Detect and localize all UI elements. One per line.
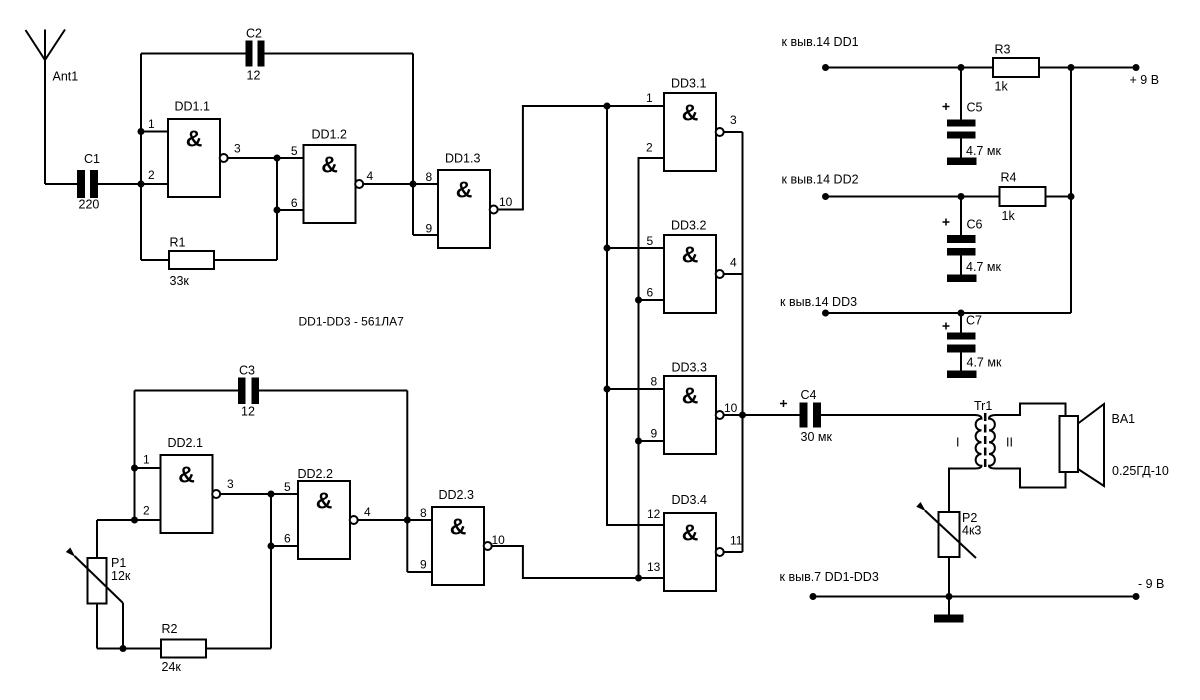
wire DD2.3 output to DD3 bus B bbox=[491, 546, 664, 578]
svg-text:10: 10 bbox=[492, 533, 506, 547]
ground bar C6 bbox=[947, 275, 977, 283]
svg-text:4к3: 4к3 bbox=[962, 524, 981, 538]
wire antenna to C1 bbox=[45, 183, 77, 185]
gate DD2.2 bbox=[298, 481, 350, 559]
svg-text:5: 5 bbox=[647, 234, 654, 248]
wire C2 to DD1.3 input net bbox=[265, 53, 414, 55]
wire power row 2 bbox=[826, 196, 1000, 198]
wire bus B vertical bbox=[639, 158, 665, 578]
svg-text:13: 13 bbox=[647, 560, 661, 574]
svg-text:к выв.14 DD2: к выв.14 DD2 bbox=[782, 173, 859, 187]
wire left vertical DD2 input net bbox=[134, 391, 136, 521]
wire pin 2 DD2.1 bbox=[97, 519, 161, 521]
wire C3 to DD2.3 input net bbox=[259, 390, 407, 392]
resistor R2 bbox=[161, 640, 206, 658]
svg-text:2: 2 bbox=[646, 141, 653, 155]
wire pin 6 DD1.2 bbox=[277, 209, 304, 211]
svg-text:к выв.14 DD3: к выв.14 DD3 bbox=[780, 295, 857, 309]
svg-text:II: II bbox=[1006, 436, 1013, 450]
svg-text:1: 1 bbox=[148, 117, 155, 131]
wire DD3.1 output bbox=[723, 131, 742, 133]
gate DD2.3 bbox=[432, 507, 484, 585]
wire C1 to node bbox=[98, 183, 168, 185]
wire pin 8 DD3.3 bbox=[607, 388, 664, 390]
svg-text:&: & bbox=[682, 100, 699, 126]
svg-text:2: 2 bbox=[143, 504, 150, 518]
svg-text:C2: C2 bbox=[246, 27, 262, 41]
svg-text:R1: R1 bbox=[170, 236, 186, 250]
svg-text:C1: C1 bbox=[84, 152, 100, 166]
svg-text:BA1: BA1 bbox=[1112, 412, 1136, 426]
wire pin 5 DD2.2 bbox=[271, 493, 298, 495]
plus sign C5 bbox=[943, 103, 950, 110]
svg-text:3: 3 bbox=[234, 142, 241, 156]
gate DD3.3 bbox=[664, 376, 716, 454]
wire power row 1 bbox=[826, 67, 994, 69]
svg-text:6: 6 bbox=[284, 532, 291, 546]
capacitor C4 bbox=[800, 403, 822, 428]
wire top to C3 bbox=[135, 390, 239, 392]
wire secondary bottom to BA1 bbox=[996, 469, 1066, 488]
wire DD1.3 output to DD3 bus A bbox=[497, 106, 664, 210]
gate DD3.2 bbox=[664, 235, 716, 313]
plus sign C7 bbox=[943, 323, 950, 330]
capacitor C6 bbox=[960, 197, 962, 236]
transformer Tr1 primary winding bbox=[949, 415, 982, 512]
svg-text:30 мк: 30 мк bbox=[801, 430, 833, 444]
ground bbox=[948, 597, 950, 615]
svg-text:DD3.1: DD3.1 bbox=[671, 77, 706, 91]
wire pin 9 DD2.3 bbox=[407, 571, 432, 573]
svg-text:9: 9 bbox=[426, 222, 433, 236]
wire pin 9 DD1.3 bbox=[413, 234, 438, 236]
svg-text:C3: C3 bbox=[239, 364, 255, 378]
svg-text:Ant1: Ant1 bbox=[53, 70, 79, 84]
svg-text:DD1.3: DD1.3 bbox=[445, 152, 480, 166]
wire power row 3 bbox=[826, 312, 1072, 314]
svg-text:4: 4 bbox=[730, 256, 737, 270]
resistor R3 bbox=[993, 58, 1039, 77]
svg-text:8: 8 bbox=[651, 375, 658, 389]
svg-text:4: 4 bbox=[364, 505, 371, 519]
svg-text:R4: R4 bbox=[1001, 171, 1017, 185]
wire R1 to feedback node bbox=[214, 259, 277, 261]
svg-text:P1: P1 bbox=[111, 556, 126, 570]
svg-text:4.7 мк: 4.7 мк bbox=[966, 144, 1001, 158]
svg-text:6: 6 bbox=[291, 196, 298, 210]
svg-text:9: 9 bbox=[420, 558, 427, 572]
wire vertical DD2.2 input net bbox=[270, 494, 272, 649]
svg-text:3: 3 bbox=[730, 113, 737, 127]
plus sign C6 bbox=[943, 219, 950, 226]
svg-text:33к: 33к bbox=[170, 274, 190, 288]
svg-text:1k: 1k bbox=[1002, 209, 1016, 223]
wire pin 6 DD3.2 bbox=[639, 299, 665, 301]
wire C4 to Tr1 bbox=[821, 414, 975, 416]
speaker BA1 bbox=[1060, 416, 1079, 472]
ground bar C7 bbox=[947, 371, 977, 379]
svg-text:10: 10 bbox=[499, 195, 513, 209]
transformer Tr1 secondary winding bbox=[989, 415, 996, 469]
wire pin 9 DD3.3 bbox=[639, 440, 665, 442]
wire down to P1 bbox=[96, 520, 98, 558]
wire pin 1 DD2.1 bbox=[135, 467, 161, 469]
wire +9V vertical bus bbox=[1070, 68, 1072, 314]
svg-text:6: 6 bbox=[647, 286, 654, 300]
wire vertical into DD1.3 pins bbox=[412, 54, 414, 236]
svg-text:DD2.2: DD2.2 bbox=[298, 467, 333, 481]
svg-text:8: 8 bbox=[426, 170, 433, 184]
svg-text:12: 12 bbox=[647, 507, 661, 521]
svg-text:R2: R2 bbox=[162, 622, 178, 636]
svg-text:&: & bbox=[682, 242, 699, 268]
wire pin 6 DD2.2 bbox=[271, 545, 298, 547]
svg-text:к выв.14 DD1: к выв.14 DD1 bbox=[782, 35, 859, 49]
potentiometer P2 bbox=[939, 512, 960, 557]
svg-text:9: 9 bbox=[651, 427, 658, 441]
svg-text:C6: C6 bbox=[967, 218, 983, 232]
capacitor C2 bbox=[246, 41, 265, 67]
svg-text:&: & bbox=[178, 462, 195, 488]
gate DD1.1 bbox=[168, 119, 220, 197]
svg-text:2: 2 bbox=[148, 168, 155, 182]
svg-text:1: 1 bbox=[646, 91, 653, 105]
wire vertical DD1.2 input net bbox=[276, 158, 278, 260]
wire pin 8 DD1.3 bbox=[413, 183, 438, 185]
svg-text:DD1.1: DD1.1 bbox=[175, 100, 210, 114]
wire DD3.3 output bbox=[723, 414, 742, 416]
svg-text:DD1-DD3 - 561ЛА7: DD1-DD3 - 561ЛА7 bbox=[299, 315, 405, 329]
potentiometer P1 bbox=[88, 558, 107, 604]
wire left vertical DD1 input net bbox=[140, 54, 142, 261]
svg-text:DD1.2: DD1.2 bbox=[312, 128, 347, 142]
wire DD1.2 output bbox=[363, 183, 413, 185]
svg-text:11: 11 bbox=[730, 534, 743, 548]
svg-text:DD2.3: DD2.3 bbox=[439, 488, 474, 502]
svg-text:DD3.3: DD3.3 bbox=[672, 361, 707, 375]
svg-text:220: 220 bbox=[79, 198, 100, 212]
wire bus to C4 bbox=[743, 414, 800, 416]
capacitor C5 bbox=[960, 68, 962, 120]
svg-text:Tr1: Tr1 bbox=[974, 399, 992, 413]
svg-text:&: & bbox=[186, 126, 203, 152]
svg-text:&: & bbox=[682, 383, 699, 409]
wire DD3.2 output bbox=[723, 273, 742, 275]
wire negative rail bbox=[813, 596, 1136, 598]
gate DD3.1 bbox=[664, 93, 716, 171]
wire P2 to negative rail bbox=[948, 557, 950, 597]
svg-text:&: & bbox=[456, 177, 473, 203]
wire pin 8 DD2.3 bbox=[407, 519, 432, 521]
svg-text:5: 5 bbox=[284, 480, 291, 494]
svg-text:C5: C5 bbox=[967, 101, 983, 115]
svg-text:DD3.4: DD3.4 bbox=[672, 493, 707, 507]
transformer Tr1 core bbox=[984, 413, 987, 470]
svg-text:12: 12 bbox=[247, 69, 261, 83]
wire pin 5 DD3.2 bbox=[607, 247, 664, 249]
wire P1 bottom bbox=[96, 604, 98, 649]
svg-text:&: & bbox=[316, 488, 333, 514]
gate DD2.1 bbox=[161, 455, 213, 533]
svg-text:&: & bbox=[682, 520, 699, 546]
wire R4 to bus bbox=[1046, 196, 1072, 198]
wire output bus vertical bbox=[742, 132, 744, 552]
svg-text:12к: 12к bbox=[111, 569, 131, 583]
svg-text:4: 4 bbox=[367, 169, 374, 183]
wire pin 5 DD1.2 bbox=[277, 157, 304, 159]
capacitor C1 bbox=[77, 170, 98, 198]
svg-text:DD2.1: DD2.1 bbox=[168, 436, 203, 450]
svg-text:C4: C4 bbox=[801, 388, 817, 402]
capacitor C3 bbox=[238, 378, 259, 405]
wire top to C2 bbox=[141, 53, 246, 55]
svg-text:10: 10 bbox=[724, 401, 738, 415]
svg-text:1: 1 bbox=[143, 453, 150, 467]
svg-text:1k: 1k bbox=[995, 80, 1009, 94]
svg-text:к выв.7 DD1-DD3: к выв.7 DD1-DD3 bbox=[780, 570, 879, 584]
plus sign C4 bbox=[780, 400, 787, 407]
svg-text:R3: R3 bbox=[995, 43, 1011, 57]
svg-text:0.25ГД-10: 0.25ГД-10 bbox=[1112, 464, 1169, 478]
svg-text:C7: C7 bbox=[966, 314, 982, 328]
wire bus A vertical bbox=[607, 106, 664, 525]
svg-text:&: & bbox=[321, 152, 338, 178]
resistor R4 bbox=[1000, 187, 1046, 206]
svg-text:24к: 24к bbox=[162, 660, 182, 674]
resistor R1 bbox=[169, 251, 214, 269]
gate DD3.4 bbox=[664, 513, 716, 591]
wire R2 to feedback node bbox=[206, 648, 271, 650]
wire pin 1 DD1.1 bbox=[141, 131, 168, 133]
capacitor C7 bbox=[960, 313, 962, 333]
svg-text:4.7 мк: 4.7 мк bbox=[967, 356, 1002, 370]
gate DD1.3 bbox=[438, 170, 490, 248]
svg-text:+ 9 В: + 9 В bbox=[1130, 73, 1160, 87]
wire DD2.1 output bbox=[220, 493, 271, 495]
svg-text:5: 5 bbox=[291, 144, 298, 158]
wire secondary top to BA1 bbox=[996, 404, 1066, 417]
wire DD2.2 output bbox=[357, 519, 407, 521]
wire DD1.1 output bbox=[227, 157, 277, 159]
gate DD1.2 bbox=[304, 145, 356, 223]
wire DD3.4 output bbox=[723, 551, 742, 553]
ground bar C5 bbox=[947, 158, 977, 166]
wire vertical into DD2.3 pins bbox=[406, 391, 408, 573]
svg-text:DD3.2: DD3.2 bbox=[671, 219, 706, 233]
wire R3 to +9V bbox=[1039, 67, 1136, 69]
svg-text:I: I bbox=[956, 436, 959, 450]
svg-text:12: 12 bbox=[241, 405, 255, 419]
svg-text:4.7 мк: 4.7 мк bbox=[966, 260, 1001, 274]
svg-text:- 9 В: - 9 В bbox=[1138, 577, 1164, 591]
svg-text:3: 3 bbox=[227, 477, 234, 491]
wire node to R1 bbox=[141, 259, 169, 261]
svg-text:&: & bbox=[450, 514, 467, 540]
antenna Ant1 bbox=[26, 30, 46, 60]
svg-text:8: 8 bbox=[420, 506, 427, 520]
